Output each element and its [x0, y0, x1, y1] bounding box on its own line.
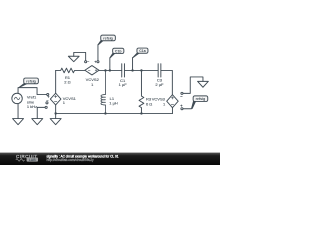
svg-text:2 µF: 2 µF	[155, 82, 164, 87]
svg-text:refsig: refsig	[103, 36, 113, 40]
svg-text:C1a: C1a	[139, 49, 145, 53]
svg-text:6 Ω: 6 Ω	[146, 101, 152, 106]
svg-text:1 µH: 1 µH	[109, 101, 118, 106]
svg-text:LAB: LAB	[29, 158, 37, 162]
svg-text:1 kHz: 1 kHz	[27, 104, 37, 109]
svg-text:refsig: refsig	[196, 97, 206, 101]
svg-text:1 µF: 1 µF	[119, 82, 128, 87]
svg-text:C1b: C1b	[115, 49, 122, 53]
svg-text:refsig: refsig	[26, 79, 36, 83]
svg-text:2 Ω: 2 Ω	[64, 80, 70, 85]
svg-text:http://circuitlab.com/circuit/: http://circuitlab.com/circuit/59u2y	[47, 158, 95, 162]
